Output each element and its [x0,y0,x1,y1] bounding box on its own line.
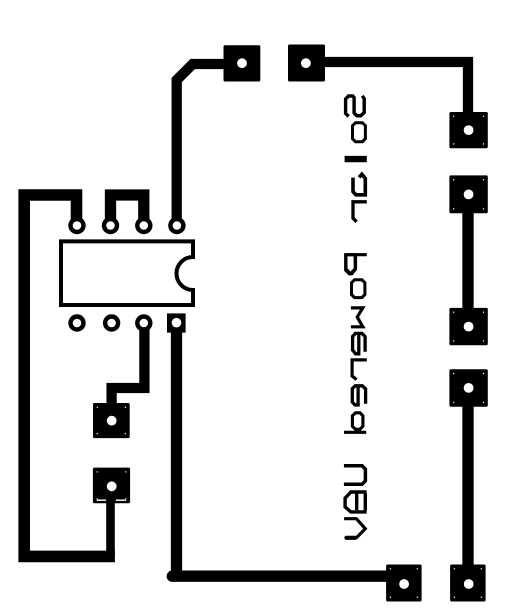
letter o (Powered) [352,280,365,298]
IC U1 pin b4 square [167,313,186,332]
pad P1 (top left) [224,45,261,81]
wire net7: IC square pin to bottom pad C [172,571,404,582]
letter e (Powered 2nd) [352,386,365,406]
IC U1 pin b1 [71,317,84,330]
wire net1 stub to pad B [106,486,115,556]
silkscreen text "Solar Powered UAV" mirrored: letter S [346,96,365,117]
pad R2 (right column) [449,175,487,213]
letter w [351,308,363,327]
letter P [344,253,357,275]
letter e (Powered 1st) [353,333,366,354]
letter A [345,492,367,512]
wire net1: pin1 top to left rail to pad B [24,195,115,556]
pad B (left lower) [93,468,130,504]
letter U [344,466,366,485]
IC U1 body outline with notch [61,241,193,305]
letter r (Solar) [353,202,367,222]
letter r (Powered) [352,360,367,380]
pad R5 (bottom right) [450,565,486,602]
pad R4 (right column) [449,369,487,407]
pad R1 (right column) [449,112,487,148]
pad R3 (right column) [449,308,487,345]
IC U1 pin b3 [137,317,150,330]
wire net4: pad P2 to right pad R1 [306,62,468,130]
wire net5: right pads R2 to R3 [462,194,473,326]
pad P2 (top right) [288,45,325,82]
IC U1 pin b2 [105,317,118,330]
wire net3: IC pin top-4 to pad P1 [177,64,242,226]
letter o (Solar) [353,123,366,142]
letter V [344,519,365,538]
letter a [353,174,365,196]
letter d [344,413,366,433]
pad C (bottom middle) [386,565,422,602]
wire net2: top pins 2-3 jumper [111,195,144,226]
letter l [345,156,367,162]
wire net6: right pads R4 to R5 [462,388,473,579]
pad A (left middle) [93,403,130,438]
IC U1 pin t4 [170,219,183,232]
IC U1 pin t3 [137,219,150,232]
IC U1 pin t2 [104,219,117,232]
IC U1 pin t1 [71,219,84,232]
wire net8: IC pin bottom-3 to pad A [112,323,145,421]
